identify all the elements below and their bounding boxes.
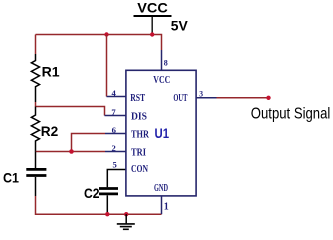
wire TRI (pin2) from left rail [36, 151, 106, 153]
wire left rail top (to R1) [35, 35, 37, 55]
capacitor C2 [84, 170, 126, 215]
IC U1 (555 timer) body [126, 70, 196, 196]
node junction at VCC stub [150, 32, 154, 36]
resistor R2 [31, 107, 58, 152]
wire left rail bottom and bottom rail [36, 196, 162, 214]
wire DIS (pin7) from left rail [36, 107, 105, 116]
node junction C2/bottom rail [105, 212, 109, 216]
svg-text:THR: THR [131, 130, 149, 141]
pin 4 lead RST [107, 96, 127, 98]
svg-text:VCC: VCC [153, 75, 170, 86]
svg-text:5: 5 [113, 160, 117, 169]
pin 3 lead OUT [196, 97, 217, 99]
node output terminal [266, 96, 270, 100]
svg-text:8: 8 [164, 57, 168, 67]
svg-text:4: 4 [112, 89, 116, 98]
svg-text:CON: CON [131, 164, 148, 175]
ground [117, 214, 135, 229]
svg-text:6: 6 [112, 126, 116, 135]
svg-text:2: 2 [112, 144, 116, 153]
pin 7 lead DIS [105, 115, 127, 117]
svg-text:GND: GND [154, 183, 168, 194]
svg-text:U1: U1 [155, 126, 170, 141]
wire output [217, 97, 269, 99]
svg-text:3: 3 [199, 89, 203, 98]
pin 8 lead VCC [161, 50, 163, 71]
svg-text:1: 1 [164, 202, 169, 213]
svg-text:VCC: VCC [137, 0, 168, 15]
pin 6 lead THR [105, 133, 126, 135]
svg-text:C2: C2 [84, 185, 100, 201]
svg-text:R1: R1 [42, 64, 60, 80]
wire THR (pin6) down to TRI wire [72, 134, 106, 152]
svg-text:Output Signal: Output Signal [251, 106, 330, 123]
svg-text:C1: C1 [3, 169, 19, 185]
capacitor C1 [3, 152, 46, 197]
wire top rail from left rail to pin 8 corner [36, 35, 162, 51]
wire R1 bottom to junction [35, 102, 37, 107]
power symbol VCC [134, 0, 172, 34]
node junction THR/TRI [69, 149, 74, 154]
node junction ground/bottom rail [124, 212, 128, 216]
svg-text:OUT: OUT [173, 93, 187, 104]
pin 1 lead GND [161, 196, 163, 214]
svg-text:TRI: TRI [131, 148, 146, 159]
wire RST drop from top rail [106, 35, 108, 97]
resistor R1 [31, 54, 59, 102]
svg-text:DIS: DIS [131, 112, 147, 123]
svg-text:7: 7 [111, 108, 115, 117]
svg-text:5V: 5V [171, 17, 189, 33]
pin 2 lead TRI [105, 151, 126, 153]
node junction at RST drop [104, 32, 108, 36]
svg-text:RST: RST [130, 93, 145, 104]
svg-text:R2: R2 [41, 123, 59, 139]
